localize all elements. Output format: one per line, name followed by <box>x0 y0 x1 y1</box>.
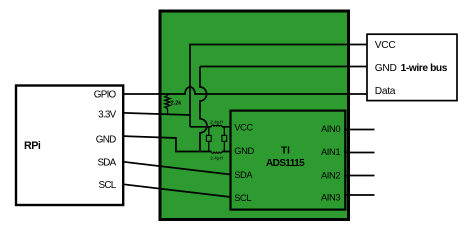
wire AIN0 stub <box>344 129 375 131</box>
wire AIN2 stub <box>344 175 375 177</box>
svg-text:GND: GND <box>96 134 116 145</box>
RPi box <box>16 86 123 206</box>
PCB board (green) <box>160 11 349 220</box>
wire v2 GND vertical with two hops <box>200 67 207 152</box>
inductor L1 2.4uH (VCC line) <box>210 119 223 127</box>
wire AIN3 stub <box>344 194 375 196</box>
wire GPIO / Data line with hop over v1 <box>116 87 367 94</box>
wire AIN1 stub <box>344 152 375 154</box>
wire VCC bus loop (3.3V to 1-wire box VCC) <box>190 45 367 127</box>
wire 3.3V <box>121 113 190 115</box>
svg-text:AIN0: AIN0 <box>321 123 340 134</box>
svg-text:SCL: SCL <box>234 192 251 203</box>
resistor R1 2.2k pull-up <box>165 94 182 114</box>
svg-text:GPIO: GPIO <box>94 90 117 101</box>
svg-text:TI: TI <box>281 146 290 157</box>
inductor L2 2.4uH (GND line) <box>210 152 223 162</box>
wire GND bus loop (to 1-wire box GND) <box>200 66 367 68</box>
svg-text:SCL: SCL <box>99 180 117 191</box>
svg-text:3.3V: 3.3V <box>98 110 116 121</box>
svg-text:SDA: SDA <box>97 157 116 168</box>
svg-text:2.4μH: 2.4μH <box>210 119 223 125</box>
svg-text:2.2k: 2.2k <box>171 100 182 106</box>
wire SDA diagonal <box>121 162 231 175</box>
capacitor C2 <box>222 127 227 152</box>
svg-text:SDA: SDA <box>234 169 253 180</box>
wire GND from RPi <box>121 136 231 152</box>
svg-text:AIN3: AIN3 <box>321 191 340 202</box>
svg-text:AIN2: AIN2 <box>321 169 340 180</box>
1-wire bus box <box>367 34 457 100</box>
wire SCL diagonal <box>121 184 231 197</box>
wire VCC pin feed <box>190 126 231 128</box>
svg-text:Data: Data <box>375 86 396 97</box>
svg-text:VCC: VCC <box>234 122 253 133</box>
IC U1 TI ADS1115 <box>231 111 346 210</box>
svg-text:AIN1: AIN1 <box>321 146 340 157</box>
svg-text:GND: GND <box>375 63 397 74</box>
svg-text:GND: GND <box>234 145 254 156</box>
svg-text:2.4μH: 2.4μH <box>210 156 223 162</box>
svg-text:ADS1115: ADS1115 <box>266 158 305 169</box>
capacitor C1 <box>206 127 211 152</box>
svg-text:RPi: RPi <box>24 140 41 152</box>
svg-text:1-wire bus: 1-wire bus <box>401 63 448 74</box>
svg-text:VCC: VCC <box>375 40 396 51</box>
